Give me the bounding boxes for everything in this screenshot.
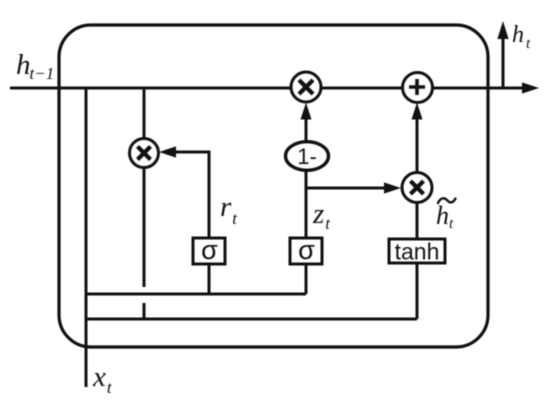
arrowhead: into candidate multiply	[384, 182, 401, 193]
wire: z branch to candidate multiply, with arrow	[306, 187, 385, 190]
wire: 1- up to multiply on h line	[305, 119, 308, 142]
multiply node: reset gate	[130, 139, 159, 168]
wire: sigma1 down to bus	[208, 264, 211, 294]
wire: main h(t-1) horizontal line	[10, 87, 524, 90]
wire: sigma2 down to bus	[305, 264, 308, 294]
wire: reset branch dash crossing to lower bus	[143, 303, 146, 319]
wire: r gate to multiply node, with arrow	[175, 152, 209, 238]
multiply node: candidate gate	[402, 173, 432, 203]
label h-tilde(t)	[436, 198, 456, 232]
arrowhead: h(t) up	[497, 21, 508, 39]
wire: lower bus line 1 (to sigma gates)	[86, 293, 306, 296]
1- ellipse node	[286, 142, 329, 171]
svg-text:σ: σ	[201, 235, 218, 265]
wire: h(t) output vertical	[502, 38, 505, 88]
sigma box 2 (update gate)	[290, 235, 322, 265]
arrowhead: into reset multiply	[159, 146, 176, 157]
wire: tanh down to bus	[416, 263, 419, 319]
svg-text:zt: zt	[312, 198, 331, 233]
sigma box 1 (reset gate)	[193, 235, 225, 265]
svg-text:1-: 1-	[297, 144, 317, 169]
svg-text:tanh: tanh	[395, 239, 440, 265]
svg-text:σ: σ	[298, 235, 315, 265]
tanh box	[389, 239, 445, 265]
cell body rounded rectangle	[59, 25, 488, 347]
svg-text:ht−1: ht−1	[16, 49, 54, 83]
arrowhead: h output right	[522, 82, 539, 93]
arrowhead: up into z multiply	[301, 103, 312, 120]
svg-text:ht: ht	[512, 22, 531, 52]
wire: candidate multiply up to plus node	[416, 119, 419, 172]
add node: plus on h line	[403, 73, 433, 103]
wire: lower bus line 2 (to tanh)	[86, 318, 417, 321]
wire: sigma2 up to 1- node	[305, 170, 308, 238]
wire: reset branch vertical from h line	[143, 88, 146, 287]
multiply node: z gate on h line	[291, 72, 321, 102]
wire: candidate multiply down to tanh	[416, 202, 419, 239]
svg-text:xt: xt	[92, 361, 113, 397]
arrowhead: up into plus	[412, 103, 423, 120]
svg-text:rt: rt	[220, 191, 238, 228]
svg-text:ht: ht	[436, 201, 454, 232]
wire: x(t) input vertical	[85, 88, 88, 387]
